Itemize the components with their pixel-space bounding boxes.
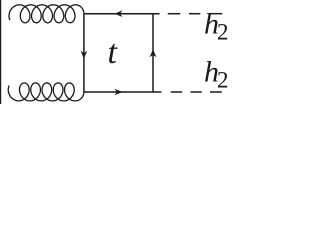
arrow on right line (pointing up)	[150, 49, 157, 57]
border frame left edge	[0, 0, 1, 104]
svg-text:t: t	[108, 34, 119, 71]
gluon g2 (bottom incoming)	[8, 83, 84, 101]
arrow on left line (pointing down)	[81, 51, 88, 59]
scalar h2 dashed line (bottom outgoing)	[171, 91, 222, 93]
gluon g1 (top incoming)	[9, 5, 84, 23]
wire right fermion line of quark box	[152, 14, 154, 92]
wire bottom fermion line of quark box	[84, 91, 161, 93]
scalar h2 dashed line (top outgoing)	[168, 13, 222, 15]
arrow on bottom line (pointing right)	[114, 89, 122, 96]
wire left fermion line of quark box	[83, 14, 85, 92]
arrow on top line (pointing left)	[114, 10, 122, 17]
wire top fermion line of quark box	[84, 13, 160, 15]
